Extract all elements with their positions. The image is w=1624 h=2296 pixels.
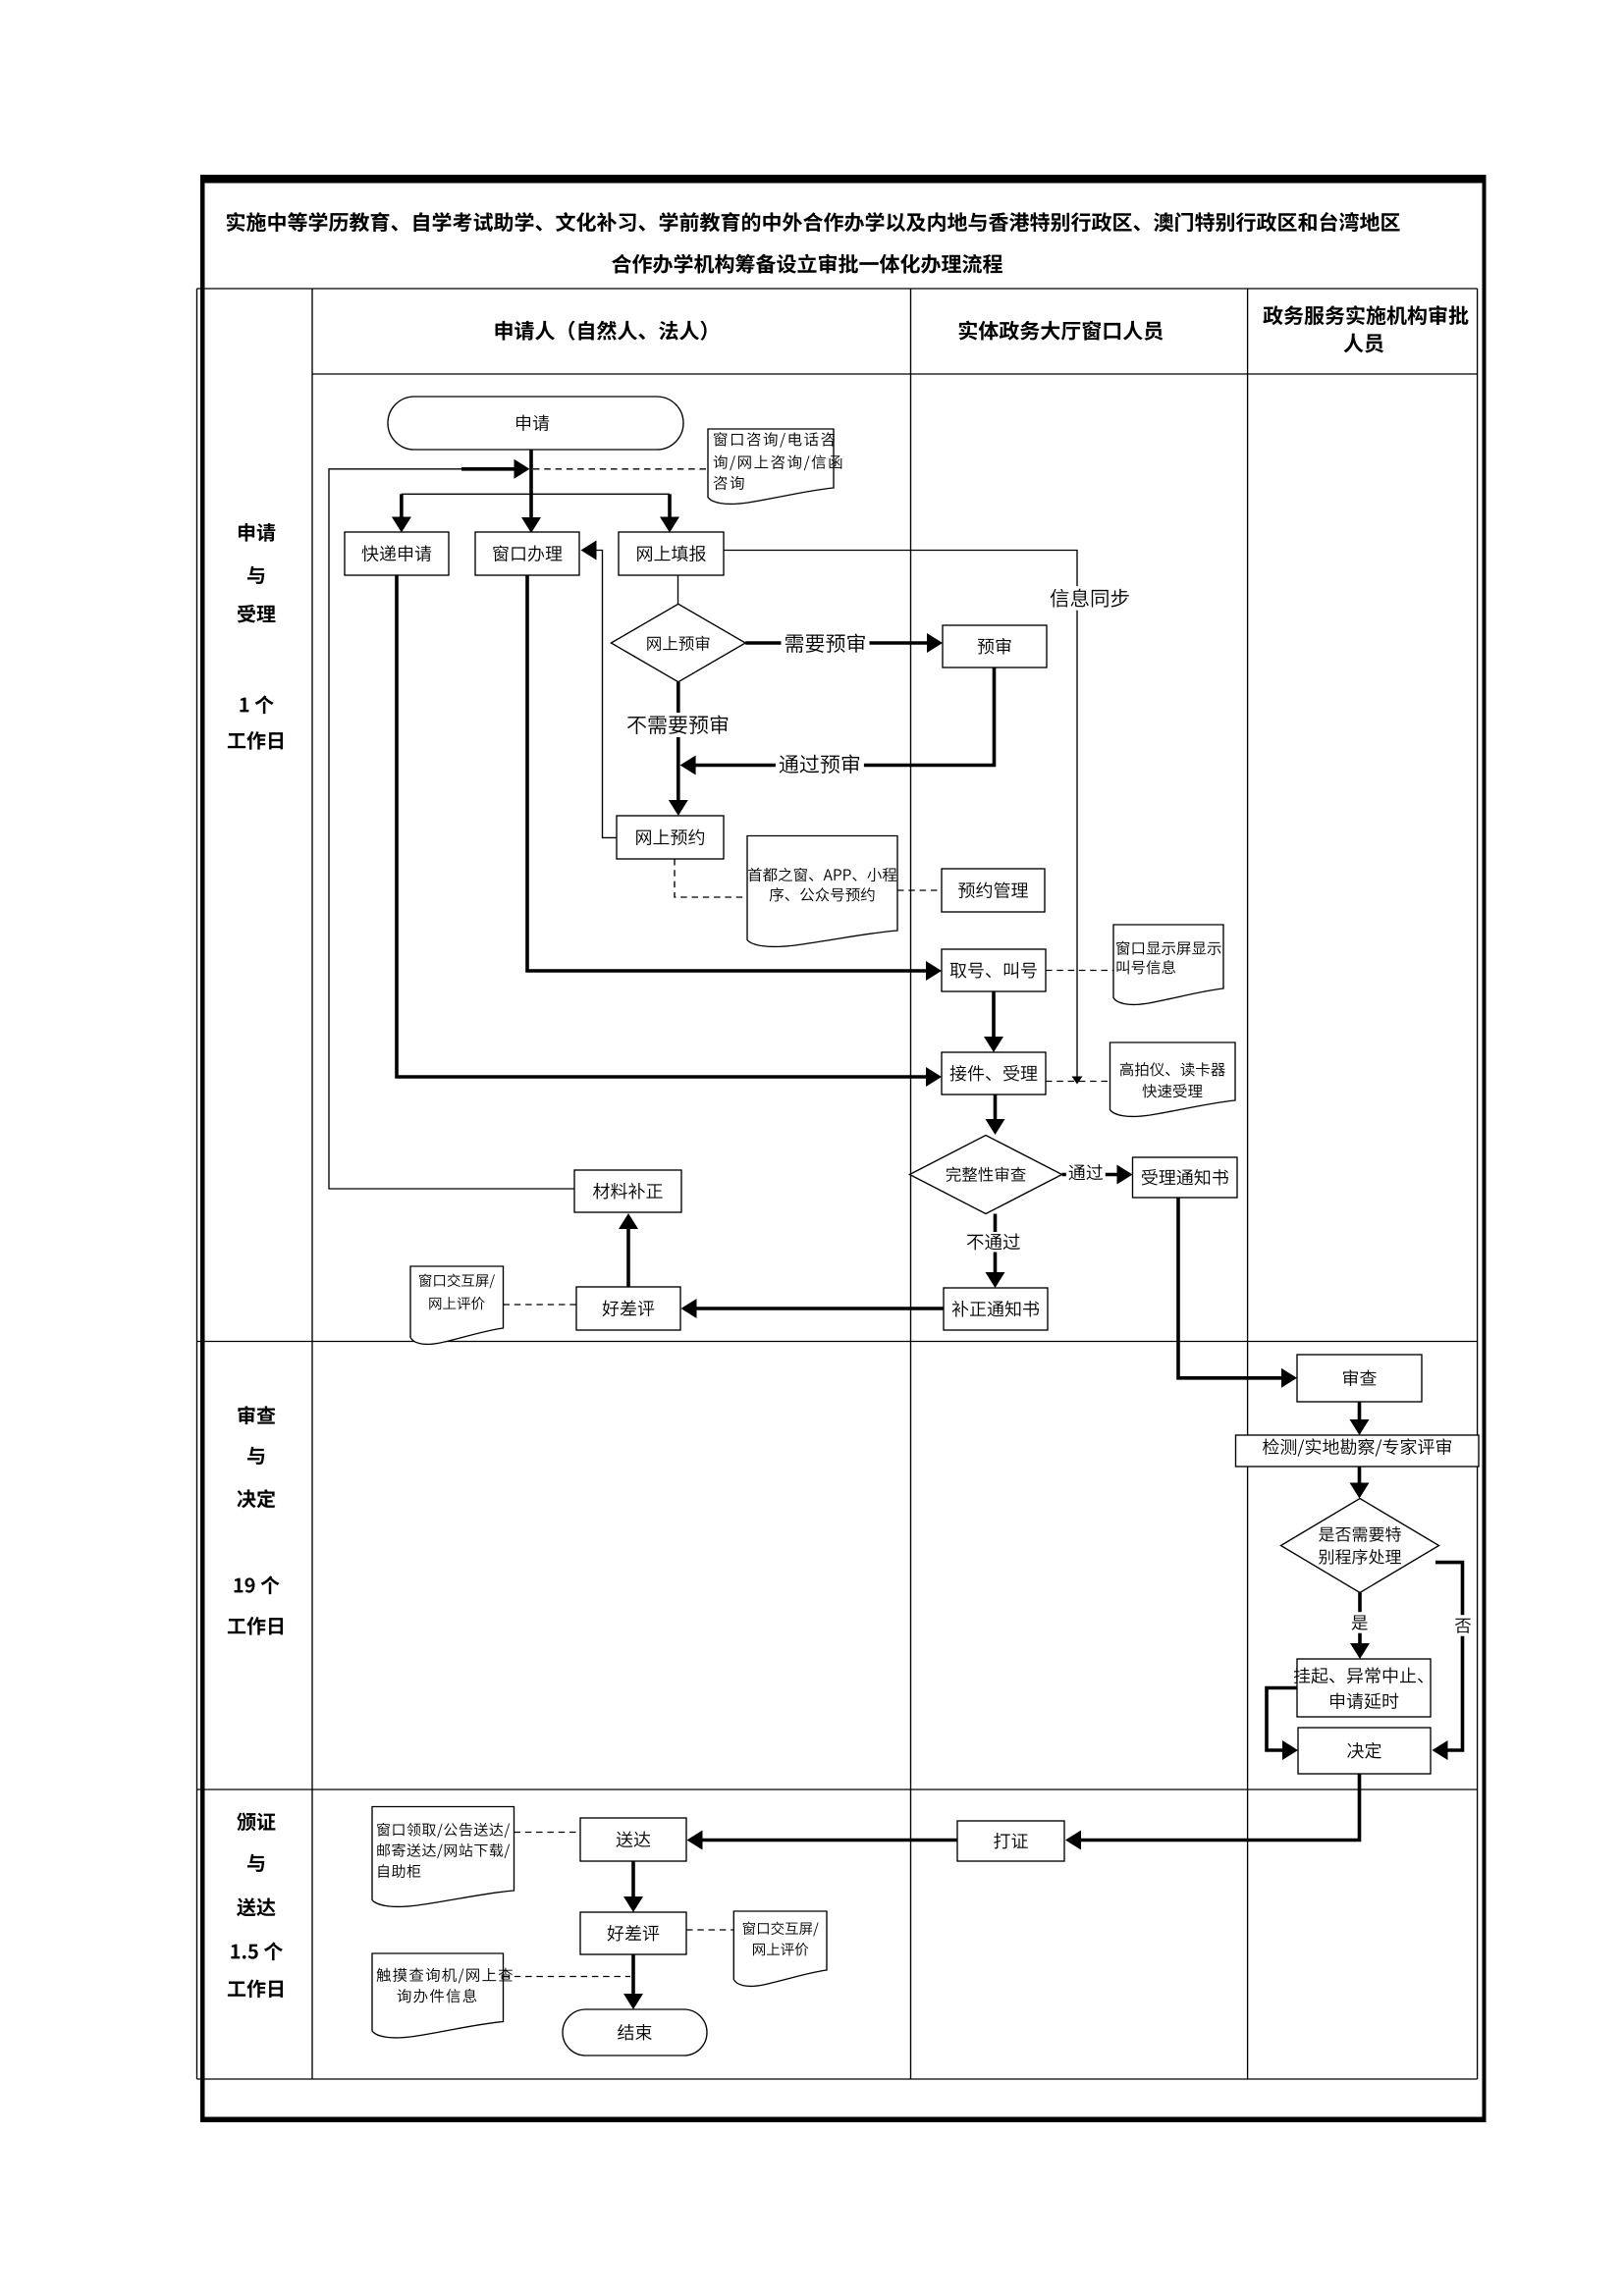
document 窗口交互屏/网上评价 bottom <box>733 1911 827 1986</box>
outer frame top border <box>200 175 1487 184</box>
dashed wire 取号、叫号 to document <box>1046 970 1113 972</box>
wire 打证 to 送达 <box>701 1839 957 1842</box>
arrowhead into 补正通知书 top <box>986 1272 1005 1288</box>
end oval 结束 <box>563 2009 707 2056</box>
outer frame bottom border <box>200 2117 1487 2123</box>
label 通过 <box>1066 1163 1106 1183</box>
process box 决定 <box>1298 1728 1431 1774</box>
phase2 word2 <box>247 1447 264 1465</box>
arrowhead into 好差评 top <box>623 1896 643 1912</box>
table grid line: phase column divider <box>311 289 313 2079</box>
dashed wire 网上预约 to 首都之窗 document <box>675 859 747 897</box>
phase3 word2 <box>247 1854 264 1872</box>
arrowhead into 检测 top <box>1350 1419 1370 1435</box>
arrowhead into diamond top <box>1350 1483 1370 1499</box>
wire 否 branch <box>1435 1563 1463 1750</box>
phase3 word3 <box>237 1897 275 1916</box>
outer frame left border <box>200 175 205 2122</box>
process box 补正通知书 <box>944 1288 1048 1330</box>
header lane 1 <box>496 321 707 341</box>
dashed wire document to 送达 <box>514 1832 581 1834</box>
arrowhead loop into 决定 left <box>1282 1740 1298 1760</box>
phase3 word1 <box>237 1812 275 1831</box>
wire 送达 to 好差评 <box>631 1861 635 1898</box>
title line 2 <box>612 254 1002 274</box>
wire 取号、叫号 to 接件、受理 <box>992 991 996 1039</box>
wire 是 to 挂起 <box>1358 1593 1362 1646</box>
table grid line: lane divider 2-3 <box>1247 289 1249 2079</box>
process box 好差评 <box>576 1287 680 1330</box>
table grid line: left edge <box>196 289 198 2079</box>
phase1 word5 <box>228 731 283 750</box>
table grid line: header bottom <box>312 373 1478 375</box>
document 首都之窗、APP、小程序、公众号预约 <box>747 836 897 947</box>
wire branch stub to 网上填报 <box>668 494 672 518</box>
process box 网上预约 <box>617 816 724 859</box>
wire 窗口办理 to 取号、叫号 <box>527 575 928 971</box>
label 通过预审 <box>776 752 864 776</box>
phase1 word3 <box>238 605 276 623</box>
wire 网上预约 to 窗口办理 <box>595 551 617 838</box>
header lane 3 line1 <box>1263 305 1468 325</box>
phase2 word3 <box>237 1489 275 1508</box>
decision diamond 完整性审查 <box>909 1136 1061 1214</box>
table grid line: top horizontal <box>197 288 1478 290</box>
document 高拍仪、读卡器快速受理 <box>1110 1042 1236 1116</box>
wire 检测 to 是否需要特别程序处理 <box>1358 1467 1362 1485</box>
process box 窗口办理 <box>475 532 579 575</box>
arrowhead into 受理通知书 left <box>1117 1165 1133 1185</box>
arrowhead into 挂起 top <box>1350 1643 1370 1659</box>
process box 送达 <box>580 1818 686 1861</box>
arrowhead 否 into 决定 right <box>1433 1740 1448 1760</box>
wire 补正通知书 to 好差评 <box>695 1307 944 1310</box>
dashed wire 好差评 to document <box>686 1929 733 1931</box>
dashed wire to consult document <box>533 468 708 470</box>
arrowhead into 接件、受理 left <box>926 1067 942 1087</box>
process box 挂起、异常中止、申请延时 <box>1294 1659 1431 1717</box>
arrowhead into 接件、受理 top <box>984 1037 1003 1052</box>
process box 预审 <box>943 625 1047 667</box>
phase1 word2 <box>247 566 264 584</box>
label 是 <box>1349 1612 1371 1633</box>
phase1 word4 <box>240 695 273 714</box>
process box 预约管理 <box>942 869 1045 912</box>
dashed wire document to end line <box>504 1976 631 1978</box>
phase3 word5 <box>228 1979 283 1998</box>
document 窗口咨询/电话咨询/网上咨询/信函咨询 <box>708 429 841 504</box>
table grid line: bottom <box>197 2078 1478 2080</box>
arrowhead into 预审 left <box>927 633 943 653</box>
wire 通过 to 受理通知书 <box>1062 1173 1118 1177</box>
phase3 word4 <box>231 1942 283 1960</box>
label 不通过 <box>964 1232 1023 1253</box>
arrowhead into 窗口办理 right <box>581 541 597 561</box>
dashed wire 接件、受理 to document <box>1046 1081 1110 1083</box>
arrowhead into 结束 top <box>623 1994 643 2009</box>
header lane 3 line2 <box>1344 334 1383 353</box>
wire branch horizontal <box>402 493 670 495</box>
wire 通过预审 from 预审 to 不需要预审 line <box>693 667 995 766</box>
wire feedback from 材料补正 to 申请 line <box>329 469 574 1189</box>
wire branch stub to 快递申请 <box>400 494 404 518</box>
phase2 word4 <box>235 1575 280 1594</box>
wire 接件、受理 to 完整性审查 <box>994 1095 998 1121</box>
label 需要预审 <box>782 631 870 656</box>
process box 接件、受理 <box>942 1052 1046 1095</box>
wire 不需要预审 down to 网上预约 <box>677 682 680 802</box>
label 否 <box>1452 1615 1474 1636</box>
phase1 word1 <box>239 523 275 542</box>
arrowhead into 审查 left <box>1281 1368 1297 1388</box>
process box 快递申请 <box>345 532 449 575</box>
dashed wire 首都之窗 document to 预约管理 <box>897 889 942 891</box>
dashed wire document to 好差评 <box>504 1304 577 1306</box>
wire 决定 to 打证 <box>1079 1774 1360 1841</box>
label 不需要预审 <box>623 713 732 737</box>
arrowhead into 好差评 right <box>681 1299 697 1318</box>
phase2 word1 <box>238 1406 275 1424</box>
arrowhead into 网上预约 top <box>669 800 688 816</box>
wire 不通过 to 补正通知书 <box>994 1214 998 1275</box>
wire 网上填报 to 网上预审 <box>677 575 679 604</box>
arrowhead into 送达 right <box>687 1831 703 1850</box>
wire 挂起 loop to 决定 <box>1267 1688 1297 1751</box>
arrowhead 信息同步 down <box>1072 1077 1083 1085</box>
wire 受理通知书 to 审查 <box>1178 1198 1283 1378</box>
wire 好差评 to 结束 <box>631 1954 635 1996</box>
document 窗口交互屏/网上评价 <box>410 1266 504 1344</box>
wire 申请 to 窗口办理 <box>529 450 533 519</box>
arrowhead into 完整性审查 top <box>986 1119 1005 1135</box>
arrowhead into 窗口办理 top <box>521 517 541 533</box>
header lane 2 <box>959 321 1164 341</box>
label 信息同步 <box>1048 586 1132 611</box>
arrowhead into 材料补正 bottom <box>619 1213 638 1229</box>
process box 好差评 bottom <box>580 1912 686 1954</box>
process box 材料补正 <box>574 1170 681 1212</box>
document 窗口领取/公告送达/邮寄送达/网站下载/自助柜 <box>372 1807 514 1907</box>
process box 网上填报 <box>619 532 724 575</box>
start oval 申请 <box>388 397 683 450</box>
process box 检测/实地勘察/专家评审 <box>1236 1435 1480 1467</box>
arrowhead into 打证 right <box>1065 1831 1081 1850</box>
process box 审查 <box>1297 1355 1422 1402</box>
title line 1 <box>227 212 1400 232</box>
arrowhead into 网上填报 top <box>660 517 679 533</box>
process box 打证 <box>957 1821 1064 1861</box>
arrowhead 通过预审 into vertical line <box>680 756 696 775</box>
process box 受理通知书 <box>1133 1157 1238 1198</box>
outer frame right border <box>1483 175 1487 2122</box>
wire 快递申请 to 接件、受理 <box>397 575 928 1077</box>
wire 审查 to 检测 <box>1358 1402 1362 1421</box>
process box 取号、叫号 <box>942 949 1046 991</box>
table grid line: phase divider 2 <box>197 1789 1478 1790</box>
decision diamond 是否需要特别程序处理 <box>1281 1499 1439 1593</box>
wire 好差评 up to 材料补正 <box>626 1227 630 1287</box>
table grid line: lane divider 1-2 <box>910 289 912 2079</box>
wire 需要预审 to 预审 <box>745 641 929 645</box>
arrowhead into 取号、叫号 left <box>926 961 942 981</box>
document 窗口显示屏显示叫号信息 <box>1113 925 1223 1004</box>
document 触摸查询机/网上查询办件信息 <box>372 1953 513 2038</box>
phase2 word5 <box>228 1617 283 1635</box>
decision diamond 网上预审 <box>611 604 745 681</box>
arrowhead feedback into 申请 line <box>514 459 530 479</box>
wire 信息同步 from 网上填报 <box>724 551 1077 1079</box>
arrowhead into 快递申请 top <box>392 517 411 533</box>
table grid line: phase divider 1 <box>197 1341 1478 1343</box>
table grid line: right edge <box>1477 289 1479 2079</box>
